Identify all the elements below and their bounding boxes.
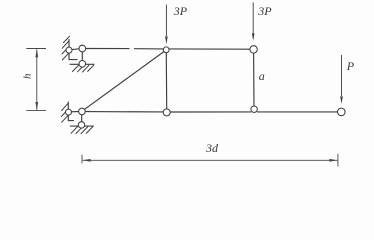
dimension 3d extension tick (right) [337,154,339,167]
top chord member (left segment) [86,48,129,50]
joint C (top right) [250,46,257,53]
vertical member (mid, under first 3P) [165,53,167,109]
joint A (top-left) [79,45,86,52]
bottom chord member (joint E to joint F) [170,111,251,113]
wall line (bottom-left support) [68,102,73,121]
diagonal member (bottom-left joint to top mid joint) [85,51,165,109]
joint G (right end, under P) [338,108,346,116]
ground hatching (top-left support anchor) [73,65,94,72]
svg-text:h: h [22,73,34,79]
dimension h arrowhead (down) [35,102,38,110]
dimension 3d arrowhead (left) [83,159,91,162]
ground line (bottom-left support anchor) [71,125,94,127]
load arrow P [341,55,343,96]
joint F (bottom, below joint C) [251,106,257,112]
ground hatching (bottom-left support anchor) [71,127,93,134]
top chord member (mid segment) [135,48,164,50]
ground line (top-left support anchor) [70,63,94,65]
link to wall (bottom-left support) [70,111,79,113]
dimension h arrowhead (up) [35,49,38,57]
vertical link (top-left support) [81,52,83,61]
svg-text:a: a [259,69,265,83]
bottom chord member (joint F to right end) [257,111,337,113]
pin on wall (bottom-left support) [66,109,72,115]
joint D (bottom-left) [79,108,86,115]
svg-text:P: P [346,59,355,73]
dimension 3d line [83,159,338,161]
joint B (top mid, under first 3P) [163,47,169,53]
svg-text:3d: 3d [205,141,219,155]
dimension 3d extension tick (left) [81,155,83,164]
dimension h extension tick (top) [26,48,46,50]
svg-text:3P: 3P [257,4,272,18]
wall line (top-left support) [69,40,77,60]
dimension 3d arrowhead (right) [329,159,337,162]
wall hatching (top-left support) [62,36,70,60]
joint E (bottom mid) [163,109,170,116]
dimension h extension tick (bottom) [26,109,46,111]
vertical link (bottom-left support) [81,115,83,122]
wall hatching (bottom-left support) [61,103,68,122]
svg-text:3P: 3P [173,4,188,18]
anchor pin (top-left support) [79,61,86,68]
bottom chord member (left of joint E) [85,111,163,113]
pin on wall (top-left support) [66,47,72,53]
anchor pin (bottom-left support) [78,122,84,128]
load arrow 3P (left) [165,5,167,37]
vertical member a (right) [253,53,255,107]
link to wall (top-left support) [70,49,80,50]
load arrow 3P (right) [252,3,254,34]
top chord member (right segment) [169,48,250,50]
dimension h line [36,49,38,110]
